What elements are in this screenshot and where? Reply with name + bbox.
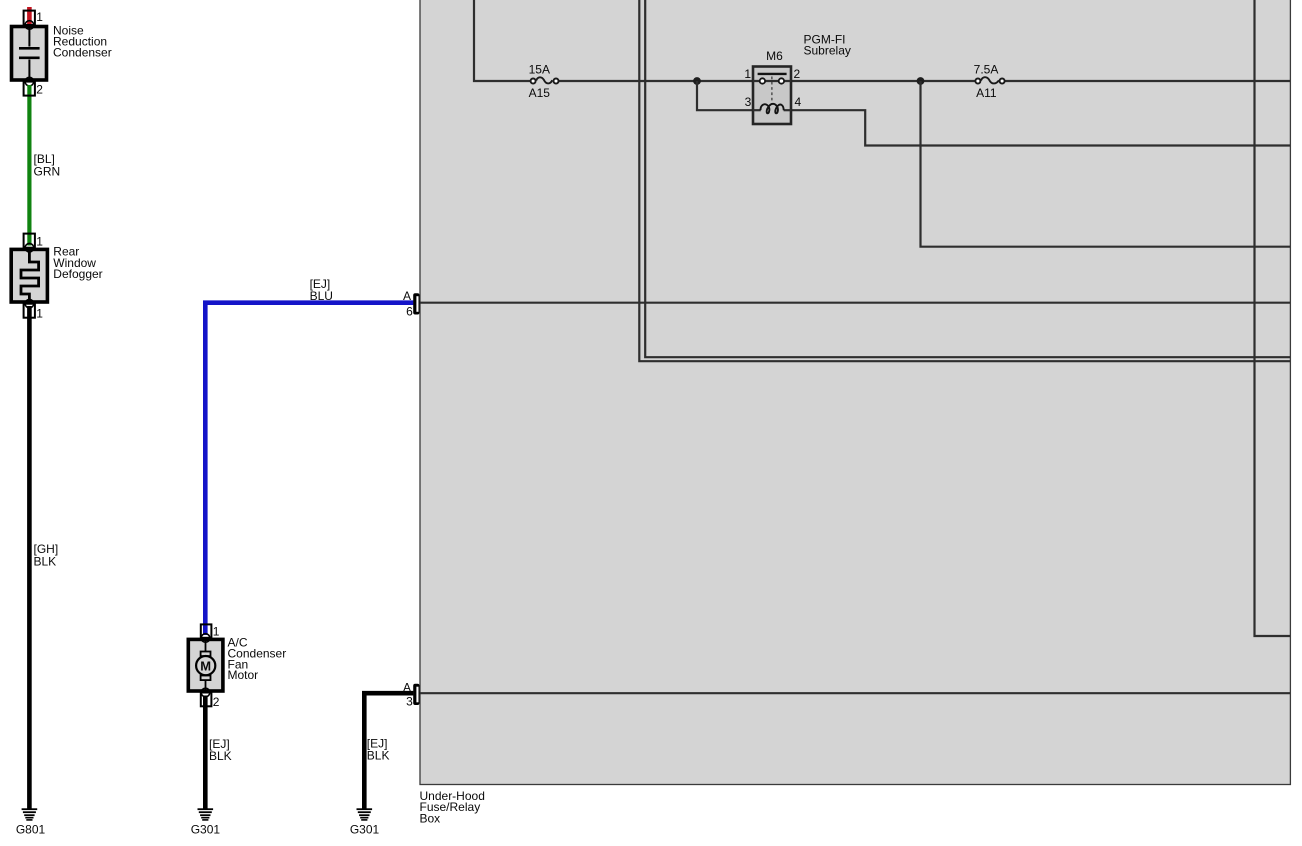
contact circle pin 2	[779, 78, 784, 83]
motor top terminal semicircle	[201, 634, 210, 643]
node junction at x=920.5 on main bus	[917, 77, 925, 85]
svg-text:Subrelay: Subrelay	[804, 43, 851, 57]
wire: from junction down and right at y=246.7	[921, 81, 1291, 247]
svg-text:1: 1	[36, 306, 43, 320]
double bus outer line	[639, 0, 1290, 361]
Under-Hood Fuse/Relay Box	[420, 0, 1290, 785]
wire: right vertical x=1254.5 down to y=636 then right	[1255, 0, 1291, 636]
connector pin box 2 of condenser	[24, 82, 35, 96]
rear window defogger body	[11, 249, 47, 302]
label Noise Reduction Condenser	[53, 23, 112, 59]
double bus inner line	[645, 0, 1290, 357]
wire through relay contacts	[753, 80, 791, 82]
coil	[760, 104, 783, 113]
wire: main bus y=81 from fuse A15 to fuse A11	[557, 80, 978, 82]
motor circle with M	[196, 656, 215, 675]
svg-text:Box: Box	[420, 811, 441, 825]
ground G301 for A3	[350, 809, 380, 836]
connector pin box 1 bottom of defogger	[24, 304, 35, 318]
svg-text:2: 2	[213, 695, 220, 709]
svg-text:Condenser: Condenser	[53, 45, 112, 59]
fuse A15 15A	[529, 63, 559, 100]
label Under-Hood Fuse/Relay Box	[420, 789, 485, 826]
svg-text:G301: G301	[191, 822, 221, 836]
svg-text:6: 6	[406, 305, 413, 319]
defogger top terminal semicircle	[25, 243, 34, 252]
connector A3 terminal bar	[403, 681, 420, 709]
svg-text:M: M	[200, 658, 211, 673]
capacitor element	[28, 28, 30, 47]
wire: from junction down to relay coil pin 3	[697, 81, 761, 110]
svg-text:A: A	[403, 681, 411, 695]
connector A6 terminal bar	[403, 289, 420, 319]
contact circle pin 1	[760, 78, 765, 83]
A/C condenser fan motor body	[188, 639, 223, 691]
wire: green [BL] GRN from condenser pin 2 to defogger pin 1	[27, 85, 31, 246]
svg-text:15A: 15A	[529, 63, 550, 77]
wire: from relay pin 4 right, down, and right at y=145.5	[784, 110, 1290, 145]
dashed actuator line	[771, 77, 773, 105]
wire: black [EJ] BLK from fan motor pin 2 to ground G301	[203, 696, 208, 809]
svg-text:BLK: BLK	[367, 749, 390, 763]
svg-text:1: 1	[744, 67, 751, 81]
label Rear Window Defogger	[53, 245, 102, 281]
label A/C Condenser Fan Motor	[228, 636, 287, 682]
svg-text:M6: M6	[766, 49, 783, 63]
svg-text:2: 2	[794, 67, 801, 81]
label [EJ] BLK	[209, 737, 232, 763]
defogger heater element meander	[21, 251, 39, 301]
wire: blue [EJ] BLU from box pin A6 to fan motor pin 1	[205, 303, 413, 635]
motor internal leads and brushes	[205, 641, 207, 652]
wire: A6 line y=302.7 across box	[417, 302, 1290, 304]
svg-text:BLK: BLK	[34, 554, 57, 568]
noise reduction condenser body	[12, 27, 47, 81]
condenser bottom terminal semicircle	[25, 77, 34, 86]
wire: main bus y=81 after fuse A11 to box right edge	[1002, 80, 1290, 82]
svg-text:A: A	[403, 289, 411, 303]
wire: black [GH] BLK from defogger pin 1 to ground G801	[27, 306, 32, 809]
motor bottom terminal semicircle	[201, 688, 210, 697]
connector pin box 1 top of defogger	[24, 234, 35, 248]
label [EJ] BLU	[310, 277, 333, 303]
svg-text:7.5A: 7.5A	[974, 63, 999, 77]
wire: vertical feed at x=474 into fuse A15 line	[474, 0, 532, 81]
svg-text:1: 1	[36, 235, 43, 249]
defogger bottom terminal semicircle	[25, 299, 34, 308]
svg-text:2: 2	[36, 83, 43, 97]
label [EJ] BLK	[367, 736, 390, 762]
svg-text:1: 1	[213, 624, 220, 638]
svg-text:GRN: GRN	[34, 164, 61, 178]
switch bar	[758, 73, 787, 75]
ground G801	[16, 809, 46, 836]
fuse A11 7.5A	[974, 63, 1005, 100]
svg-text:Motor: Motor	[228, 668, 259, 682]
svg-text:A15: A15	[529, 86, 551, 100]
ground G301 for fan motor	[191, 809, 221, 836]
label [GH] BLK	[34, 542, 59, 569]
svg-text:BLU: BLU	[310, 289, 333, 303]
svg-text:3: 3	[745, 95, 752, 109]
svg-text:4: 4	[795, 95, 802, 109]
relay M6 PGM-FI Subrelay	[744, 33, 851, 124]
label [BL] GRN	[34, 152, 61, 178]
svg-text:BLK: BLK	[209, 749, 232, 763]
wire: black [EJ] BLK from box pin A3 to ground G301	[364, 693, 413, 808]
connector pin box 1 of fan motor	[201, 624, 212, 637]
svg-text:A11: A11	[976, 86, 997, 100]
wire: red battery stub at condenser pin 1	[27, 7, 32, 24]
svg-text:G301: G301	[350, 822, 380, 836]
wire through relay coil row	[753, 109, 761, 111]
connector pin box 2 of fan motor	[201, 693, 212, 707]
connector pin box 1 of condenser	[24, 11, 35, 25]
condenser top terminal semicircle	[25, 21, 34, 30]
svg-text:Defogger: Defogger	[53, 267, 102, 281]
svg-text:1: 1	[36, 10, 43, 24]
svg-text:G801: G801	[16, 822, 46, 836]
node junction at x=697 on main bus	[693, 77, 701, 85]
wire: A3 line y=693.2 across box	[417, 692, 1290, 694]
svg-text:3: 3	[406, 695, 413, 709]
